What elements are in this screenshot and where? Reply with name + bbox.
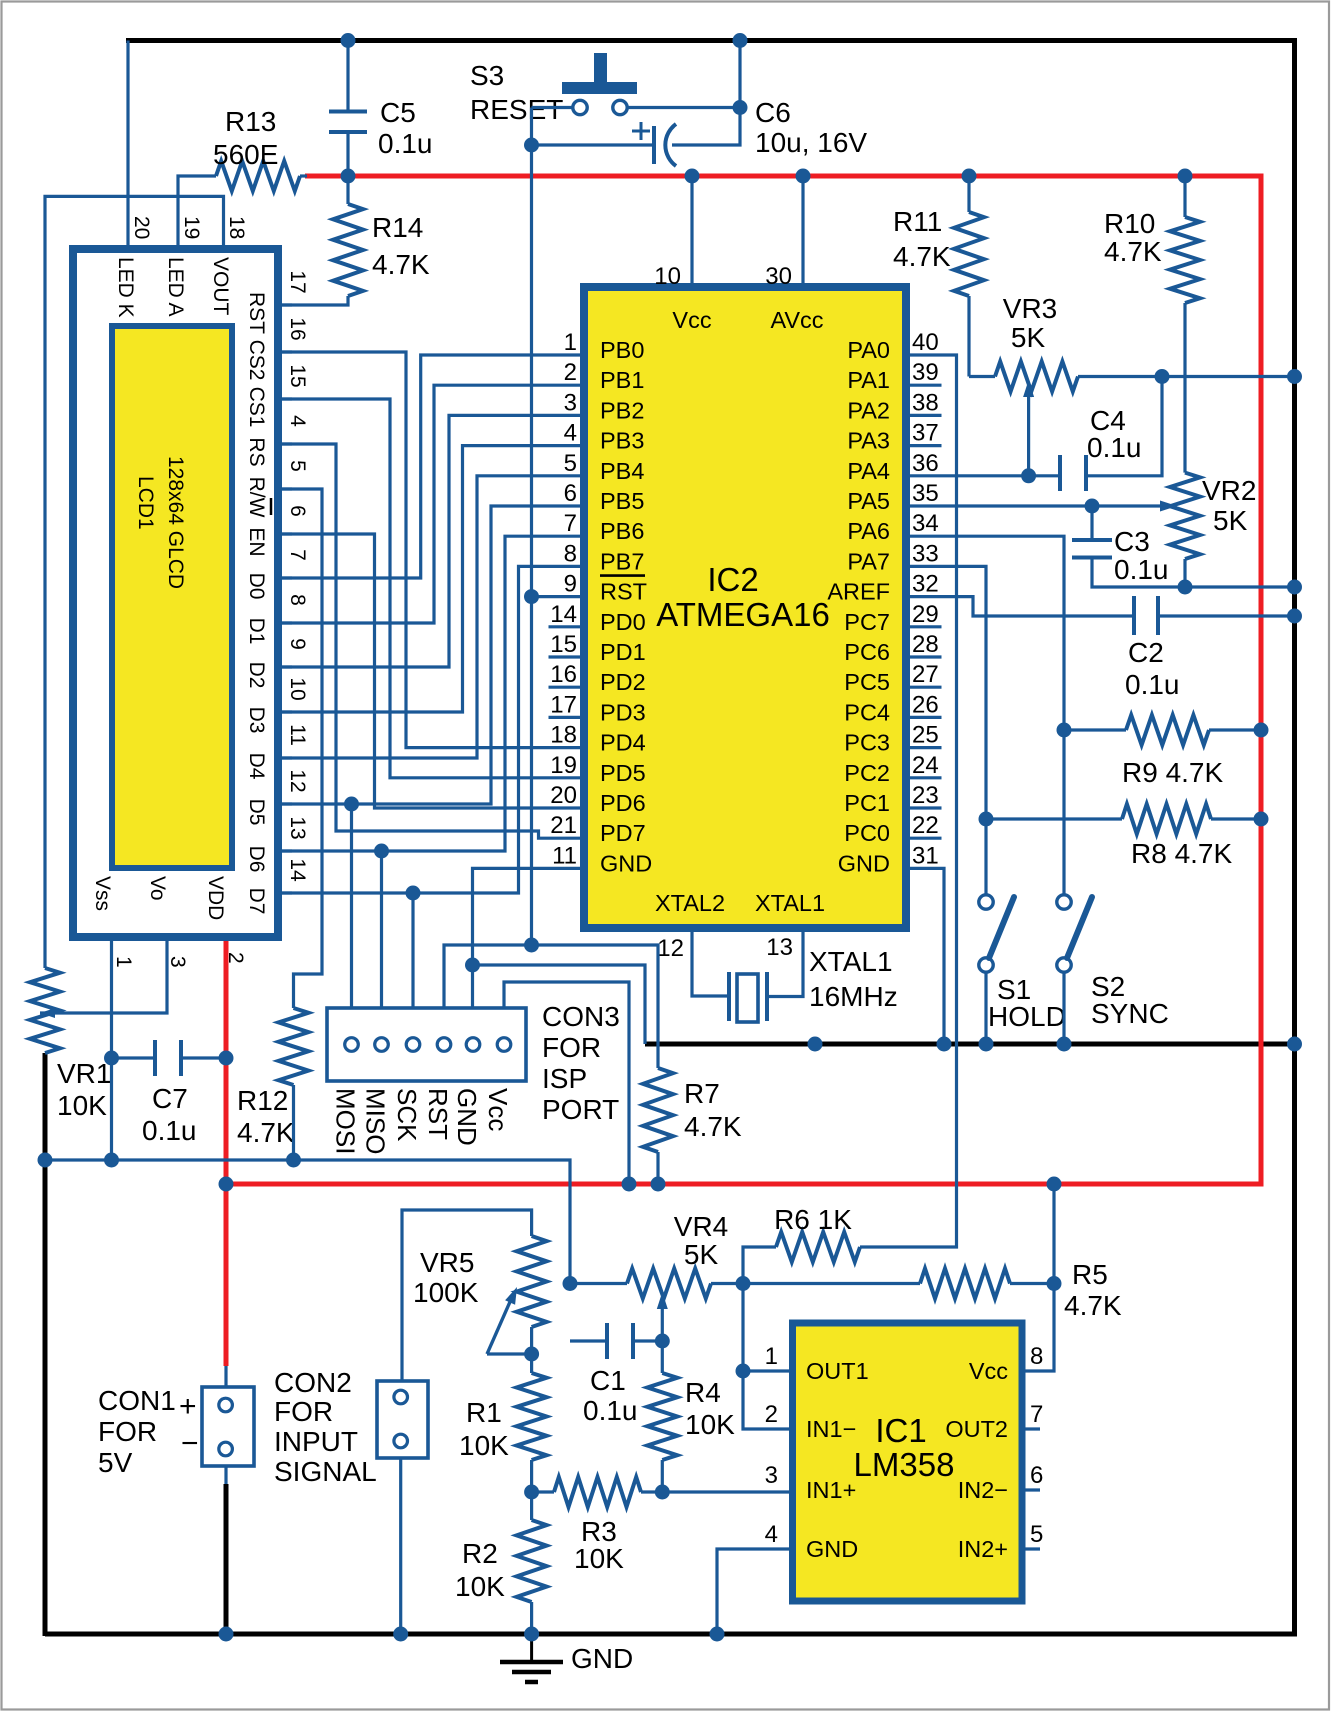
svg-text:6: 6: [1030, 1462, 1043, 1489]
wire C6 left / S3 to IC2 RST: [530, 108, 533, 597]
svg-text:Vcc: Vcc: [969, 1358, 1008, 1384]
svg-text:10: 10: [286, 677, 309, 700]
svg-text:LED A: LED A: [164, 257, 187, 317]
svg-text:PC6: PC6: [844, 639, 890, 665]
svg-text:PD4: PD4: [600, 730, 646, 756]
svg-text:4: 4: [286, 415, 309, 427]
wire ground line under LCD: [45, 1160, 570, 1284]
svg-text:R9 4.7K: R9 4.7K: [1122, 757, 1223, 788]
svg-text:PC7: PC7: [844, 609, 890, 635]
IC1 LM358 body: [793, 1323, 1023, 1601]
wire RST to R7: [532, 945, 659, 1068]
ground symbol: [530, 1636, 533, 1660]
svg-text:D4: D4: [245, 753, 268, 780]
resistor R2 10K: [517, 1520, 547, 1602]
svg-text:12: 12: [657, 935, 684, 962]
svg-text:PD0: PD0: [600, 609, 646, 635]
svg-text:7: 7: [564, 510, 577, 537]
svg-text:CON2: CON2: [274, 1367, 352, 1398]
junction at 1064,730: [1057, 723, 1072, 738]
LCD1 screen: [112, 326, 232, 868]
wire CON3 GND net: [473, 868, 585, 1008]
svg-text:PB7: PB7: [600, 548, 644, 574]
junction at 413,893: [406, 886, 421, 901]
wire VDD red drop to CON1: [224, 937, 229, 1366]
svg-text:4.7K: 4.7K: [1064, 1290, 1122, 1321]
svg-text:30: 30: [765, 263, 792, 290]
LCD1 pin 5 (R/W) tick: [278, 487, 292, 490]
junction at 717,1634: [710, 1627, 725, 1642]
svg-text:1: 1: [112, 956, 135, 968]
junction at 45,1160: [38, 1153, 53, 1168]
wire VR5 bottom to R1: [530, 1327, 533, 1373]
LCD1 module outline: [73, 249, 278, 937]
junction at 803,176: [796, 169, 811, 184]
svg-text:10u, 16V: 10u, 16V: [755, 127, 867, 158]
svg-text:14: 14: [286, 858, 309, 882]
resistor R3 10K: [532, 1490, 554, 1493]
svg-text:2: 2: [224, 952, 247, 964]
svg-text:15: 15: [550, 631, 577, 658]
svg-text:36: 36: [912, 450, 939, 477]
svg-text:RESET: RESET: [470, 94, 563, 125]
capacitor C3: [1090, 506, 1093, 540]
wire ground bus right: [1292, 38, 1297, 1634]
wire IC2 PA7 to R8 and S1: [906, 566, 986, 895]
wire LCD RS to IC2 PD7: [278, 444, 584, 838]
junction at 740,107: [733, 100, 748, 115]
svg-text:10K: 10K: [57, 1090, 107, 1121]
svg-text:XTAL1: XTAL1: [809, 946, 893, 977]
svg-text:IN2+: IN2+: [958, 1536, 1008, 1562]
svg-text:AVcc: AVcc: [770, 307, 823, 333]
wire LCD D4 to IC2 PB4: [278, 476, 584, 758]
svg-text:19: 19: [180, 216, 203, 239]
svg-text:AREF: AREF: [827, 579, 890, 605]
junction at 1185,587: [1178, 580, 1193, 595]
junction at 570,1283: [563, 1276, 578, 1291]
svg-text:4.7K: 4.7K: [1104, 236, 1162, 267]
wire LCD EN to IC2 PD6: [278, 534, 584, 808]
LCD1 pin 6 (EN) tick: [278, 532, 292, 535]
svg-text:38: 38: [912, 389, 939, 416]
VR3 wiper to PA4 row: [1027, 392, 1030, 476]
IC2 stub pin 15: [549, 655, 585, 658]
junction at 1092,506: [1085, 499, 1100, 514]
junction at 1064,1044: [1057, 1037, 1072, 1052]
wire LCD Vo to VR1 wiper: [40, 937, 167, 1013]
wire CON1 minus to ground: [224, 1466, 227, 1484]
wire ground bus bottom: [45, 1632, 1297, 1637]
svg-text:LCD1: LCD1: [134, 476, 157, 530]
svg-text:22: 22: [912, 812, 939, 839]
svg-text:0.1u: 0.1u: [1087, 432, 1142, 463]
svg-text:19: 19: [550, 752, 577, 779]
svg-text:FOR: FOR: [542, 1032, 601, 1063]
potentiometer VR4 5K: [570, 1282, 627, 1285]
svg-text:IN1+: IN1+: [806, 1477, 856, 1503]
svg-text:6: 6: [286, 505, 309, 517]
svg-text:D7: D7: [245, 888, 268, 915]
svg-text:PD1: PD1: [600, 639, 646, 665]
svg-text:11: 11: [552, 842, 577, 869]
svg-text:PA7: PA7: [847, 548, 890, 574]
svg-text:R5: R5: [1072, 1259, 1108, 1290]
svg-text:8: 8: [564, 540, 577, 567]
svg-text:D6: D6: [245, 846, 268, 873]
svg-text:VDD: VDD: [204, 876, 227, 920]
wire R1 to R2/R3 node: [530, 1460, 533, 1520]
svg-text:C3: C3: [1114, 526, 1150, 557]
svg-text:0.1u: 0.1u: [1114, 554, 1169, 585]
wire VR2 bottom to ground: [1183, 559, 1186, 587]
svg-text:3: 3: [564, 389, 577, 416]
LCD1 pin 8 (D1) tick: [278, 621, 292, 624]
capacitor C1: [570, 1339, 607, 1342]
wire XTAL1 pin13: [767, 928, 803, 997]
potentiometer VR1 10K: [30, 968, 60, 1053]
svg-text:GND: GND: [838, 850, 890, 876]
svg-text:ATMEGA16: ATMEGA16: [656, 596, 830, 633]
IC2 stub pin 23: [906, 806, 942, 809]
junction at 662,1341: [655, 1334, 670, 1349]
svg-text:25: 25: [912, 722, 939, 749]
wire R2 to ground bus: [530, 1602, 533, 1634]
svg-text:23: 23: [912, 782, 939, 809]
LCD1 pin 9 (D2) tick: [278, 665, 292, 668]
resistor R11: [967, 176, 970, 212]
CON2 input connector: [377, 1381, 428, 1458]
svg-text:SCK: SCK: [392, 1088, 422, 1142]
svg-text:Vo: Vo: [146, 876, 169, 901]
svg-text:34: 34: [912, 510, 939, 537]
wire IC2 PA5 to VR2 wiper: [906, 504, 1168, 507]
resistor R5 4.7K: [920, 1269, 1010, 1299]
svg-text:0.1u: 0.1u: [378, 128, 433, 159]
svg-text:R12: R12: [237, 1085, 288, 1116]
svg-text:C2: C2: [1128, 637, 1164, 668]
junction at 351,804: [344, 797, 359, 812]
svg-text:Vcc: Vcc: [672, 307, 711, 333]
svg-text:MISO: MISO: [361, 1088, 391, 1154]
junction at 1054,1184: [1047, 1177, 1062, 1192]
CON3 pin 5 circle: [466, 1038, 480, 1052]
svg-text:CS1: CS1: [245, 387, 268, 428]
svg-text:SYNC: SYNC: [1091, 998, 1169, 1029]
svg-text:IC2: IC2: [707, 561, 758, 598]
junction at 1185,176: [1178, 169, 1193, 184]
svg-text:RS: RS: [245, 437, 268, 466]
VR5 wiper: [487, 1352, 532, 1355]
junction at 472,965: [465, 958, 480, 973]
junction at 1054,1283: [1047, 1276, 1062, 1291]
resistor R12: [279, 1008, 309, 1085]
junction at 1294,587: [1287, 580, 1302, 595]
svg-text:9: 9: [564, 571, 577, 598]
switch S3 push button: [594, 53, 607, 83]
wire LCD R/W to R12: [278, 489, 322, 1008]
svg-text:PA2: PA2: [847, 397, 890, 423]
svg-text:4.7K: 4.7K: [684, 1111, 742, 1142]
junction at 531,1354: [524, 1347, 539, 1362]
IC2 stub pin 17: [549, 716, 585, 719]
wire VR5 top to CON2: [402, 1210, 532, 1381]
svg-text:14: 14: [550, 601, 577, 628]
svg-text:Vss: Vss: [91, 876, 114, 911]
svg-text:PORT: PORT: [542, 1094, 619, 1125]
wire LCD D1 to IC2 PB1: [278, 385, 584, 623]
svg-text:EN: EN: [245, 527, 268, 556]
wire IC2 PA4 to C4: [906, 474, 1060, 477]
svg-text:R7: R7: [684, 1078, 720, 1109]
svg-text:R8 4.7K: R8 4.7K: [1131, 838, 1232, 869]
IC2 stub pin 26: [906, 716, 942, 719]
junction at 111,1160: [104, 1153, 119, 1168]
wire R5 to Vcc rail and IC1 Vcc: [1022, 1184, 1054, 1371]
junction at 348,40: [341, 33, 356, 48]
svg-text:VR1: VR1: [57, 1058, 111, 1089]
svg-text:RST: RST: [423, 1088, 453, 1140]
capacitor C6 electrolytic: [652, 126, 656, 164]
wire IC2 GND pin31 to bus: [906, 868, 944, 1044]
potentiometer VR3 5K: [969, 375, 995, 378]
svg-text:10K: 10K: [455, 1571, 505, 1602]
CON3 pin 6 circle: [497, 1038, 511, 1052]
IC2 stub pin 37: [906, 444, 942, 447]
svg-text:35: 35: [912, 480, 939, 507]
wire RST to CON3 RST pin: [444, 945, 532, 1008]
LCD1 pin 10 (D3) tick: [278, 710, 292, 713]
svg-text:HOLD: HOLD: [988, 1001, 1066, 1032]
svg-text:VR3: VR3: [1003, 293, 1057, 324]
CON3 ISP connector: [327, 1008, 526, 1081]
svg-text:PA1: PA1: [847, 367, 890, 393]
svg-text:GND: GND: [806, 1536, 858, 1562]
wire ground branch to switches: [645, 1042, 1295, 1047]
svg-text:5: 5: [1030, 1521, 1043, 1548]
junction at 743,1283: [736, 1276, 751, 1291]
IC2 ATMEGA16 body: [584, 287, 906, 928]
svg-text:PA3: PA3: [847, 428, 890, 454]
svg-text:R/W: R/W: [245, 477, 268, 518]
svg-text:R11: R11: [893, 206, 942, 237]
IC2 stub pin 29: [906, 625, 942, 628]
resistor R4 10K: [647, 1373, 677, 1460]
wire OUT1 to IN1-: [743, 1369, 793, 1372]
wire LCD D3 to IC2 PB3: [278, 446, 584, 712]
LCD1 pin 17 (RST) tick: [278, 303, 292, 306]
svg-text:16: 16: [550, 661, 577, 688]
svg-text:10: 10: [654, 263, 681, 290]
svg-text:FOR: FOR: [274, 1396, 333, 1427]
svg-text:MOSI: MOSI: [331, 1088, 361, 1154]
svg-text:16: 16: [286, 317, 309, 340]
wire ground bus to C6: [672, 38, 740, 145]
svg-text:7: 7: [286, 549, 309, 561]
junction at 662,1492: [655, 1485, 670, 1500]
svg-text:R1: R1: [466, 1397, 502, 1428]
junction at 986,819: [979, 812, 994, 827]
svg-text:PB3: PB3: [600, 428, 644, 454]
CON3 pin 4 circle: [437, 1038, 451, 1052]
wire LCD D5 to IC2 PB5: [278, 506, 584, 804]
svg-text:5K: 5K: [684, 1239, 719, 1270]
wire RST down to CON3/R7: [530, 597, 533, 945]
svg-text:VR2: VR2: [1202, 475, 1256, 506]
svg-text:100K: 100K: [413, 1277, 479, 1308]
svg-text:C6: C6: [755, 97, 791, 128]
svg-text:0.1u: 0.1u: [1125, 669, 1180, 700]
svg-text:OUT1: OUT1: [806, 1358, 869, 1384]
wire R7 to Vcc rail: [656, 1152, 659, 1184]
svg-text:8: 8: [1030, 1343, 1043, 1370]
junction at 740,40: [733, 33, 748, 48]
svg-text:PA0: PA0: [847, 337, 890, 363]
wire Vcc rail: [226, 176, 1261, 1184]
svg-text:40: 40: [912, 329, 939, 356]
wire LCD D2 to IC2 PB2: [278, 415, 584, 667]
potentiometer VR5 100K: [517, 1236, 547, 1327]
wire R13 to LCD LED A pin 19: [178, 176, 216, 249]
wire R6 to opamp OUT1: [743, 1247, 776, 1371]
wire R14 to LCD RST pin 17: [278, 296, 348, 305]
CON3 pin 1 circle: [345, 1038, 359, 1052]
svg-text:VR4: VR4: [674, 1211, 728, 1242]
wire CON2 bottom to ground: [399, 1458, 402, 1634]
svg-text:11: 11: [286, 724, 309, 746]
wire IC2 PA0 down to R6: [860, 355, 957, 1247]
IC2 stub pin 39: [906, 384, 942, 387]
wire R10 to VR2: [1183, 303, 1186, 473]
svg-text:10K: 10K: [574, 1543, 624, 1574]
IC2 stub pin 25: [906, 746, 942, 749]
potentiometer VR2 5K: [1170, 473, 1200, 559]
junction at 944,1044: [937, 1037, 952, 1052]
svg-text:3: 3: [765, 1462, 778, 1489]
svg-text:29: 29: [912, 601, 939, 628]
junction at 111,1058: [104, 1051, 119, 1066]
switch S1 HOLD: [979, 895, 993, 909]
svg-text:28: 28: [912, 631, 939, 658]
svg-text:PD6: PD6: [600, 790, 646, 816]
svg-text:S3: S3: [470, 60, 504, 91]
wire CON3 MISO to D6 net: [380, 851, 383, 1008]
junction at 531,145: [524, 138, 539, 153]
svg-text:37: 37: [912, 420, 939, 447]
svg-text:−: −: [181, 1427, 199, 1460]
wire XTAL2 pin12: [692, 928, 729, 996]
junction at 969,176: [962, 169, 977, 184]
junction at 658,1184: [651, 1177, 666, 1192]
svg-text:PA4: PA4: [847, 458, 890, 484]
LCD1 pin 11 (D4) tick: [278, 756, 292, 759]
svg-text:GND: GND: [600, 850, 652, 876]
wire ground bus top: [126, 38, 1295, 43]
wire R12 to ground line: [292, 1085, 295, 1160]
resistor R9: [1064, 728, 1126, 731]
junction at 1294,616: [1287, 609, 1302, 624]
svg-text:RST: RST: [600, 579, 647, 605]
wire LCD D0 to IC2 PB0: [278, 355, 584, 578]
svg-text:XTAL2: XTAL2: [655, 890, 725, 916]
svg-text:4.7K: 4.7K: [237, 1117, 295, 1148]
svg-text:20: 20: [130, 216, 153, 239]
wire CON3 SCK to D7 net: [411, 893, 414, 1008]
wire IC1 GND to bus: [717, 1549, 793, 1634]
svg-text:2: 2: [765, 1401, 778, 1428]
wire S3 left to RST net: [532, 106, 573, 109]
LCD1 pin 14 (D7) tick: [278, 891, 292, 894]
junction at 1294,1044: [1287, 1037, 1302, 1052]
svg-text:IC1: IC1: [875, 1412, 926, 1449]
svg-text:LM358: LM358: [854, 1446, 955, 1483]
svg-text:D3: D3: [245, 707, 268, 734]
LCD1 pin 16 (CS2) tick: [278, 350, 292, 353]
wire LCD CS1 to IC2 PD5: [278, 399, 584, 778]
svg-text:1: 1: [564, 329, 577, 356]
svg-text:5: 5: [286, 460, 309, 472]
junction at 692,176: [685, 169, 700, 184]
junction at 531,596: [524, 589, 539, 604]
CON3 pin 2 circle: [375, 1038, 389, 1052]
junction at 531,1634: [524, 1627, 539, 1642]
CON3 pin 3 circle: [406, 1038, 420, 1052]
svg-text:17: 17: [550, 691, 577, 718]
svg-text:0.1u: 0.1u: [583, 1395, 638, 1426]
svg-text:4: 4: [564, 420, 577, 447]
wire LCD D7 to IC2 PB7: [278, 566, 584, 893]
svg-text:OUT2: OUT2: [945, 1416, 1008, 1442]
junction at 815,1044: [808, 1037, 823, 1052]
svg-text:VOUT: VOUT: [209, 257, 232, 316]
wire R3/R4 to IC1 IN1+: [641, 1490, 793, 1493]
wire R11 to VR3: [967, 296, 970, 377]
svg-text:D5: D5: [245, 799, 268, 826]
svg-text:128x64 GLCD: 128x64 GLCD: [164, 456, 187, 589]
svg-text:PD7: PD7: [600, 820, 646, 846]
wire AVcc pin30: [801, 176, 804, 287]
svg-text:XTAL1: XTAL1: [755, 890, 825, 916]
wire S3 right to C6 top: [628, 106, 741, 109]
svg-text:IN2−: IN2−: [958, 1477, 1008, 1503]
svg-text:PB0: PB0: [600, 337, 644, 363]
svg-text:5K: 5K: [1011, 322, 1046, 353]
svg-text:9: 9: [286, 638, 309, 650]
resistor R14: [346, 178, 349, 204]
resistor R10: [1183, 176, 1186, 217]
svg-text:7: 7: [1030, 1401, 1043, 1428]
junction at 400,1634: [393, 1627, 408, 1642]
svg-text:D0: D0: [245, 573, 268, 600]
svg-text:GND: GND: [452, 1088, 482, 1146]
svg-text:5: 5: [564, 450, 577, 477]
svg-text:PC4: PC4: [844, 699, 890, 725]
svg-text:31: 31: [912, 842, 939, 869]
junction at 986,1044: [979, 1037, 994, 1052]
LCD1 pin 15 (CS1) tick: [278, 397, 292, 400]
svg-text:8: 8: [286, 594, 309, 606]
svg-text:R4: R4: [685, 1377, 721, 1408]
IC1 stub pins 7,6,5: [1022, 1427, 1040, 1430]
capacitor C2: [1132, 596, 1136, 635]
IC2 stub pin 16: [549, 686, 585, 689]
svg-text:3: 3: [166, 956, 189, 968]
svg-text:PB1: PB1: [600, 367, 644, 393]
wire C1/VR4 wiper to R4: [661, 1341, 664, 1373]
svg-text:33: 33: [912, 540, 939, 567]
junction at 1294,376: [1287, 369, 1302, 384]
wire LCD Vss down: [110, 937, 113, 1160]
